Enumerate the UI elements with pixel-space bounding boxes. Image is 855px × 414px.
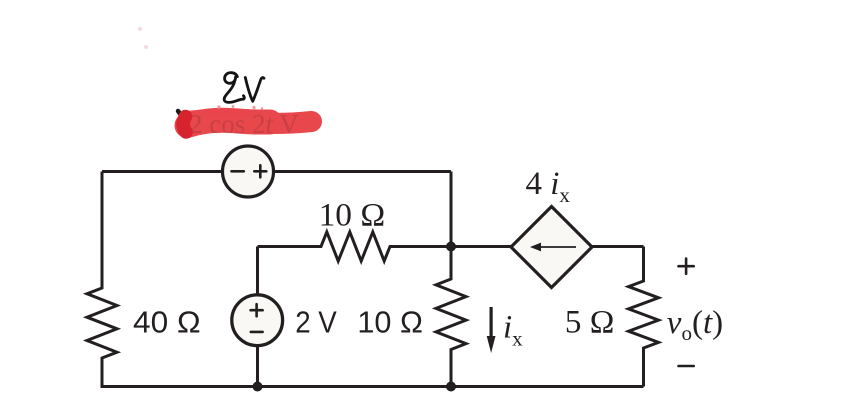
svg-text:vo(t): vo(t) bbox=[667, 305, 723, 345]
svg-text:2 V: 2 V bbox=[295, 305, 337, 340]
svg-text:40 Ω: 40 Ω bbox=[133, 305, 201, 340]
svg-text:4 ix: 4 ix bbox=[526, 166, 571, 207]
svg-text:5 Ω: 5 Ω bbox=[565, 304, 614, 340]
svg-text:2 cos 2t V: 2 cos 2t V bbox=[189, 109, 299, 139]
svg-text:10 Ω: 10 Ω bbox=[319, 197, 386, 233]
svg-text:10 Ω: 10 Ω bbox=[357, 305, 423, 340]
svg-text:ix: ix bbox=[503, 310, 523, 351]
